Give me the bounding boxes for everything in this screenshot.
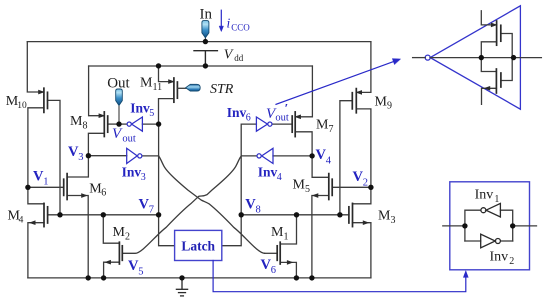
svg-text:7: 7 — [149, 205, 154, 216]
svg-text:6: 6 — [246, 112, 251, 123]
wire V3 node to Inv3 input — [88, 155, 126, 157]
transistor M3 — [349, 203, 369, 226]
transistor inset NMOS — [485, 69, 501, 93]
svg-text:out: out — [122, 133, 135, 144]
svg-text:2: 2 — [509, 256, 514, 267]
wire V7 down into Latch left port — [159, 215, 175, 246]
transistor M9 — [352, 89, 361, 113]
junction dot M5 source ground — [309, 275, 314, 280]
wire M7 drain down through V4 to M5 drain — [295, 132, 329, 178]
pin Out — [116, 89, 123, 105]
wire Out pin drop to Vout node — [118, 105, 120, 124]
wire left outer rail upper segment — [27, 42, 44, 92]
wire latch inset right loop — [500, 210, 512, 241]
wire M11 source drop from Vdd rail — [159, 66, 174, 82]
wire latch inset left stub — [443, 225, 465, 227]
wire right outer rail middle segment M9 drain to V2 to M3 drain — [353, 109, 371, 204]
transistor M1 — [277, 242, 292, 264]
junction dot V7 — [156, 212, 161, 217]
wire cross coupling Inv3 output to M1 gate — [159, 156, 265, 253]
wire inset NMOS source down — [482, 88, 497, 104]
wire inset PMOS source up — [481, 11, 496, 25]
junction dot M1 source ground — [294, 275, 299, 280]
svg-text:8: 8 — [256, 205, 261, 216]
transistor M8 — [99, 112, 108, 137]
inverter Inv1 inset — [481, 203, 501, 217]
svg-text:6: 6 — [101, 188, 106, 199]
wire M6 source down to bottom rail — [67, 196, 88, 278]
junction dot V3 — [86, 153, 91, 158]
wire M5 source down to bottom rail — [312, 196, 329, 278]
wire left outer rail middle segment M10 drain to V1 to M4 drain — [28, 108, 44, 204]
transistor inset PMOS — [491, 21, 501, 45]
inverter Inv5 — [127, 117, 142, 131]
svg-text:3: 3 — [141, 172, 146, 183]
svg-text:4: 4 — [19, 215, 24, 225]
svg-text:5: 5 — [305, 184, 310, 195]
svg-text:1: 1 — [43, 177, 48, 188]
svg-text:M: M — [316, 118, 329, 133]
svg-text:4: 4 — [326, 155, 332, 166]
wire latch inset bottom left — [465, 240, 481, 242]
svg-text:10: 10 — [17, 101, 27, 111]
wire inset input line — [413, 57, 426, 59]
Latch box — [175, 230, 222, 260]
latch inset box — [450, 182, 530, 270]
svg-text:M: M — [113, 225, 126, 240]
svg-text:4: 4 — [277, 172, 282, 183]
wire inset mid line — [430, 57, 541, 59]
svg-text:CCO: CCO — [231, 22, 250, 32]
svg-text:M: M — [140, 76, 153, 91]
svg-text:8: 8 — [83, 121, 88, 132]
svg-text:11: 11 — [153, 82, 163, 93]
svg-text:In: In — [200, 6, 213, 22]
junction dot V4 — [309, 153, 314, 158]
blue wire Latch to latch inset — [213, 261, 468, 292]
wire M4 gate mirror line to node V7 — [48, 214, 159, 216]
wire node V8 mirror line to M3 gate — [241, 214, 349, 216]
wire Inv3 output to crossing junction — [142, 155, 159, 157]
wire left outer rail lower segment M4 source to bottom rail — [28, 223, 44, 278]
transistor M6 — [64, 174, 87, 200]
inverter Inv6 — [256, 117, 272, 131]
wire M5 gate line to V2 node — [332, 186, 371, 188]
junction dot inset gates — [479, 55, 484, 60]
wire bottom rail ground net — [28, 277, 371, 279]
svg-text:Out: Out — [107, 75, 130, 91]
svg-text:2: 2 — [125, 231, 130, 242]
svg-text:Inv: Inv — [490, 249, 509, 264]
junction dot Vout — [116, 121, 121, 126]
wire M10 gate down to mirror line — [48, 100, 61, 214]
wire Vdd rail left drop to M8 source — [89, 66, 105, 116]
inverter Inv3 — [127, 148, 142, 163]
svg-text:M: M — [70, 114, 83, 129]
transistor M11 — [169, 78, 178, 102]
transistor M2 — [105, 242, 122, 264]
svg-text:M: M — [378, 209, 391, 224]
wire Vout node to Inv5 output bubble — [119, 123, 127, 125]
junction dot M11 source — [156, 63, 161, 68]
wire M1 gate stub — [265, 252, 278, 254]
wire V8 down into Latch right port — [222, 215, 241, 246]
junction dot V8 — [239, 212, 244, 217]
wire M8 drain down through V3 to M6 drain — [67, 133, 104, 177]
svg-text:i: i — [227, 15, 231, 30]
svg-text:1: 1 — [494, 194, 499, 205]
junction dot M10 gate mirror — [57, 212, 62, 217]
wire inner Vdd rail — [89, 65, 313, 67]
wire Inv6 output to Vout' to M7 gate — [272, 123, 292, 125]
ground — [176, 278, 187, 296]
svg-text:dd: dd — [234, 53, 244, 63]
wire In pin drop to top rail — [204, 38, 206, 42]
transistor M7 — [292, 112, 300, 137]
svg-text:Inv: Inv — [227, 105, 247, 120]
junction dot V1 — [25, 185, 30, 190]
transistor M5 — [313, 174, 333, 200]
wire M1 source down to bottom rail — [280, 262, 296, 278]
arrow to inverter inset — [276, 59, 400, 105]
wire Inv5 input node down through Inv3 output to node V7 — [158, 124, 160, 215]
svg-text:′: ′ — [285, 100, 289, 115]
wire M11 gate to STR pill — [177, 87, 185, 89]
wire latch inset right stub — [513, 225, 537, 227]
transistor M4 — [30, 203, 48, 226]
inverter Inv2 inset — [481, 234, 501, 248]
power symbol Vdd — [194, 51, 217, 66]
wire M2 drain up to mirror line — [103, 215, 119, 243]
svg-text:6: 6 — [271, 265, 276, 276]
svg-text:M: M — [271, 225, 284, 240]
wire inset NMOS gate — [501, 58, 512, 81]
svg-text:5: 5 — [149, 108, 154, 119]
wire Inv6 input corner from V8 vertical — [241, 124, 256, 215]
svg-text:3: 3 — [391, 215, 396, 226]
wire M1 drain up to mirror line — [280, 215, 296, 244]
junction dot inset drains — [511, 55, 516, 60]
svg-text:M: M — [375, 94, 388, 109]
svg-text:Inv: Inv — [122, 164, 142, 179]
wire M9 gate down to mirror line — [340, 101, 352, 215]
wire V1 node line to M6 gate — [28, 186, 64, 188]
wire latch inset bottom right — [501, 240, 513, 242]
junction dot M1 drain — [294, 212, 299, 217]
wire inset NMOS drain down — [481, 58, 496, 72]
inset inverter triangle — [425, 6, 520, 109]
junction dot M9 gate mirror — [337, 212, 342, 217]
junction dot Inv5 input — [156, 121, 161, 126]
svg-text:Latch: Latch — [181, 239, 215, 254]
arrow icco — [219, 10, 223, 31]
svg-text:9: 9 — [387, 101, 392, 112]
wire latch inset left loop — [465, 210, 481, 241]
wire top rail In net — [27, 41, 371, 43]
junction dot M2 source ground — [101, 275, 106, 280]
wire Inv5 input stub — [142, 123, 158, 125]
svg-text:V: V — [224, 47, 234, 62]
wire cross coupling Inv4 output to M2 gate — [122, 156, 241, 253]
svg-text:Inv: Inv — [130, 101, 150, 116]
wire M11 drain down to Inv5 input node — [159, 99, 174, 125]
svg-text:Inv: Inv — [258, 165, 278, 180]
wire M8 gate to Vout node — [108, 123, 119, 125]
svg-text:7: 7 — [329, 124, 334, 135]
wire right outer rail lower segment M3 source to bottom rail — [353, 223, 371, 278]
inverter Inv4 — [257, 148, 273, 163]
transistor M10 — [39, 88, 48, 112]
junction dot M6 source ground — [86, 275, 91, 280]
svg-text:Inv: Inv — [475, 187, 494, 202]
svg-text:V: V — [112, 126, 123, 142]
wire inset PMOS drain down — [481, 42, 496, 58]
junction dot ground symbol — [179, 275, 184, 280]
wire M2 source down to bottom rail — [104, 262, 120, 278]
svg-text:M: M — [293, 177, 306, 192]
svg-text:3: 3 — [78, 152, 83, 163]
pin In — [202, 21, 209, 38]
junction dot V2 — [368, 185, 373, 190]
junction dot Vdd stem — [203, 63, 208, 68]
svg-text:2: 2 — [363, 178, 368, 189]
junction dot M2 drain — [101, 212, 106, 217]
pin STR — [186, 84, 201, 91]
wire Vdd rail right drop to M7 source — [295, 66, 312, 117]
junction dot In pin — [203, 39, 208, 44]
junction dot latch inset right — [510, 223, 515, 228]
wire inset PMOS gate — [501, 34, 512, 58]
wire Inv4 input to V4 node — [273, 155, 312, 157]
svg-text:5: 5 — [138, 266, 143, 277]
svg-text:STR: STR — [210, 82, 234, 97]
wire Inv4 output to crossing junction — [241, 155, 257, 157]
junction dot latch inset left — [462, 223, 467, 228]
svg-text:1: 1 — [284, 231, 289, 242]
wire right outer rail upper segment — [356, 42, 371, 93]
